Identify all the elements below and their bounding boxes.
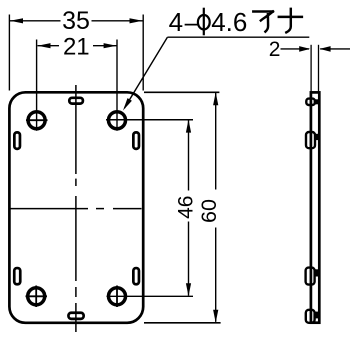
svg-text:21: 21	[63, 34, 90, 61]
katakana NA	[279, 9, 302, 33]
slot lower-left	[14, 268, 20, 284]
centerline horizontal	[11, 208, 142, 210]
side view plate body	[311, 92, 319, 322]
extension line plate top to 60	[144, 91, 219, 93]
side view tab 2	[306, 132, 315, 148]
dimension 60 line	[215, 93, 217, 190]
svg-text:46: 46	[174, 196, 197, 219]
dimension 35 line	[10, 20, 61, 22]
dimension 2 line	[281, 48, 310, 50]
centerline vertical	[75, 85, 77, 332]
dimension 46 line	[188, 120, 190, 190]
plate outline (front view)	[9, 92, 143, 322]
svg-text:4: 4	[169, 7, 183, 37]
slot lower-right	[133, 268, 139, 284]
side view tab 4 (bottom)	[306, 310, 315, 323]
hole top-left	[26, 112, 48, 129]
slot top-center	[69, 98, 83, 104]
dimension 2 extension lines	[310, 45, 312, 92]
side view tab 1 (top)	[306, 99, 315, 105]
katakana A	[253, 12, 273, 32]
hole bottom-right	[107, 286, 194, 308]
hole top-right	[106, 112, 193, 129]
hole bottom-left	[26, 286, 48, 308]
svg-text:60: 60	[197, 199, 221, 223]
dimension 35 extension lines	[8, 15, 10, 91]
slot upper-right	[133, 132, 139, 149]
slot bottom-center	[68, 313, 83, 319]
extension line plate bottom to 60	[144, 322, 221, 324]
leader line for hole note	[167, 36, 309, 38]
side view tab 3	[306, 268, 315, 285]
svg-text:35: 35	[62, 7, 90, 35]
phi symbol	[198, 8, 210, 36]
svg-text:2: 2	[269, 38, 281, 61]
svg-text:4.6: 4.6	[211, 7, 247, 37]
dimension 21 line	[38, 45, 60, 47]
dimension 21 extension lines (through top holes)	[36, 40, 38, 131]
slot upper-left	[14, 132, 20, 149]
